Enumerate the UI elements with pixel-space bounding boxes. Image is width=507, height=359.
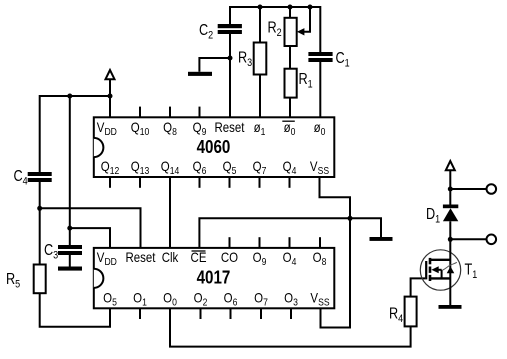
wire to terminal 1 — [450, 188, 486, 190]
wire R1 to 4060 pin ø0bar — [289, 98, 291, 118]
node VDD-branch — [67, 94, 72, 99]
transistor T1 — [420, 239, 460, 305]
svg-text:R5: R5 — [6, 271, 21, 291]
svg-text:Reset: Reset — [215, 119, 245, 135]
T1 body arrow — [431, 266, 438, 273]
resistor R3 — [254, 43, 267, 75]
pin Q5 stub — [229, 177, 231, 188]
node common ground junction — [348, 216, 353, 221]
wire to 4017 VDD — [70, 228, 110, 248]
pin Q12 stub — [109, 177, 111, 188]
wire top supply rail — [230, 7, 320, 52]
potentiometer R2 — [285, 18, 297, 46]
wire R5 to 4017 O5 — [40, 293, 110, 327]
node C3 junction — [67, 226, 72, 231]
pin O1 stub — [139, 308, 141, 319]
wire R2 to R1 — [289, 46, 291, 69]
svg-text:C4: C4 — [14, 168, 29, 188]
svg-text:CO: CO — [221, 249, 238, 265]
overbar CE — [192, 250, 206, 252]
terminal 2 — [487, 235, 497, 245]
svg-text:C1: C1 — [336, 50, 351, 70]
node rail-R2 — [288, 5, 293, 10]
pin Q8 stub — [169, 107, 171, 118]
T1 source stub — [430, 277, 450, 279]
wire R2 wiper — [304, 7, 310, 32]
IC 4060 body — [94, 117, 334, 177]
node rail-R3 — [258, 5, 263, 10]
svg-text:4060: 4060 — [197, 136, 231, 157]
capacitor C2 — [218, 24, 242, 34]
IC 4017 notch — [94, 269, 104, 288]
wire R4 to T1 gate — [411, 278, 426, 296]
svg-text:Clk: Clk — [162, 249, 179, 265]
capacitor C1 — [308, 52, 332, 62]
wire arrow to node — [449, 170, 451, 189]
T1 channel segments — [429, 258, 432, 264]
pin Q4 stub — [289, 177, 291, 188]
wire rail to R2 — [289, 7, 291, 18]
pin CO stub — [229, 237, 231, 248]
svg-text:D1: D1 — [426, 206, 441, 226]
wire to terminal 2 — [450, 238, 486, 240]
wire to ground stub — [199, 58, 230, 72]
pin O8 stub — [319, 237, 321, 248]
wire C1 to 4060 pin ø0 — [319, 62, 321, 117]
ground bar T1 source — [439, 305, 462, 309]
T1 source arrow — [447, 266, 455, 273]
svg-text:C2: C2 — [199, 22, 214, 42]
resistor R1 — [285, 69, 297, 98]
ground bar near C2 — [188, 72, 212, 76]
wire to 4017 Reset — [40, 208, 141, 248]
wire Q14 to 4017 Clk — [169, 177, 171, 248]
wire C4 to R5 — [39, 182, 41, 265]
ground bar mid — [370, 237, 393, 241]
pin O4 stub — [289, 237, 291, 248]
node VDD-arrow — [108, 94, 113, 99]
pin O3 stub — [290, 308, 292, 319]
pin O6 stub — [230, 308, 232, 319]
power arrow symbol right — [446, 161, 455, 170]
overbar ø0 — [282, 120, 295, 122]
svg-text:R4: R4 — [389, 305, 404, 325]
node output 2 — [448, 237, 453, 242]
power arrow symbol left — [106, 70, 115, 79]
wire C3 to ground — [69, 255, 71, 267]
wire R3 to 4060 pin ø1 — [259, 75, 261, 118]
wire 4017 VSS — [321, 218, 351, 327]
wire VDD rail left — [40, 96, 110, 172]
svg-text:4017: 4017 — [197, 267, 231, 288]
resistor R4 — [405, 297, 417, 327]
wire 4017 CE — [199, 218, 350, 248]
svg-text:Reset: Reset — [126, 249, 156, 265]
pin Q7 stub — [259, 177, 261, 188]
node C2-ground junction — [228, 56, 233, 61]
IC 4060 notch — [94, 138, 104, 157]
node rail-wiper — [308, 5, 313, 10]
capacitor C4 — [28, 172, 52, 182]
T1 drain-source line — [449, 239, 451, 305]
pin Q10 stub — [139, 107, 141, 118]
svg-text:R2: R2 — [268, 19, 283, 39]
wire branch vertical — [69, 96, 71, 228]
terminal 1 — [487, 184, 497, 194]
pin Q6 stub — [199, 177, 201, 188]
ground bar under C3 — [58, 267, 82, 271]
wire 4017 O0 to R4 — [170, 308, 411, 346]
pin O2 stub — [200, 308, 202, 319]
resistor R5 — [34, 265, 46, 294]
pin O7 stub — [260, 308, 262, 319]
pin Q9 stub — [199, 107, 201, 118]
pin O9 stub — [259, 237, 261, 248]
diode D1 — [449, 189, 451, 205]
svg-text:R1: R1 — [299, 71, 314, 91]
pin Q13 stub — [139, 177, 141, 188]
wire arrow to 4060 VDD — [109, 79, 111, 117]
capacitor C3 — [69, 228, 71, 245]
wire C2 to 4060 Reset — [229, 34, 231, 117]
R2 wiper arrowhead — [297, 28, 305, 35]
node output 1 — [448, 187, 453, 192]
T1 gate bar — [425, 261, 427, 279]
wire to ground stub right — [350, 218, 381, 237]
wire rail to R3 — [259, 7, 261, 43]
svg-text:R3: R3 — [238, 49, 253, 69]
svg-text:T1: T1 — [465, 261, 478, 281]
T1 squiggle — [443, 262, 457, 270]
wire 4060 VSS — [320, 177, 351, 218]
svg-text:C3: C3 — [44, 242, 59, 262]
T1 drain stub — [430, 259, 450, 261]
IC 4017 body — [94, 248, 334, 308]
node C4-Reset wire — [37, 206, 42, 211]
